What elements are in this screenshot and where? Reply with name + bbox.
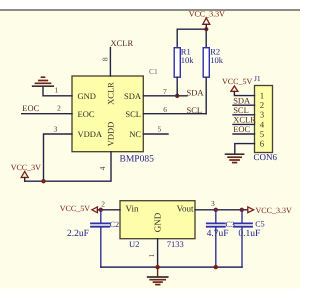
svg-text:BMP085: BMP085 <box>120 155 155 165</box>
svg-text:10k: 10k <box>210 55 224 65</box>
svg-text:3: 3 <box>54 125 58 134</box>
svg-text:10k: 10k <box>181 55 195 65</box>
svg-text:VCC_5V: VCC_5V <box>60 204 90 213</box>
svg-text:4: 4 <box>260 119 265 129</box>
svg-text:EOC: EOC <box>22 103 39 113</box>
wire pin5 NC stub <box>143 133 168 135</box>
junction R1/SDA <box>175 94 179 98</box>
svg-text:VCC_3.3V: VCC_3.3V <box>189 9 225 18</box>
svg-text:VCC_5V: VCC_5V <box>222 77 252 86</box>
capacitor C5 <box>234 210 265 267</box>
junction C2/Vin <box>99 208 103 212</box>
svg-text:VCC_3.3V: VCC_3.3V <box>256 206 292 215</box>
wire pin4 VDDD to VCC_3V <box>25 152 111 182</box>
svg-text:VCC_3V: VCC_3V <box>11 163 41 172</box>
wire J1 pin1 <box>234 91 254 95</box>
svg-text:J1: J1 <box>254 74 261 83</box>
wire Vin pin2 <box>97 209 120 211</box>
svg-text:2.2uF: 2.2uF <box>67 229 89 239</box>
svg-text:SDA: SDA <box>124 91 142 101</box>
svg-text:SCL: SCL <box>233 105 249 115</box>
svg-text:CON6: CON6 <box>254 152 278 162</box>
junction C5/Vout <box>240 208 244 212</box>
resistor R2 <box>203 29 224 114</box>
wire J1 pin6 to ground <box>235 144 255 154</box>
ground (earth) below U2 <box>148 267 168 285</box>
wire pin8 XCLR <box>109 48 111 77</box>
wire pin2 EOC <box>22 113 72 115</box>
wire pin3 VDDA <box>44 134 73 181</box>
wire J1 pin4 XCLR <box>233 123 255 125</box>
svg-text:SDA: SDA <box>187 88 205 98</box>
svg-text:8: 8 <box>100 57 109 61</box>
svg-text:C2: C2 <box>110 220 119 229</box>
svg-text:1: 1 <box>147 253 156 257</box>
wire J1 pin3 SCL <box>233 114 255 116</box>
svg-text:3: 3 <box>260 110 265 120</box>
svg-text:4: 4 <box>98 166 107 170</box>
svg-text:VDDA: VDDA <box>78 129 103 139</box>
capacitor C3 <box>207 210 235 267</box>
junction C3/Vout <box>214 208 218 212</box>
svg-text:0.1uF: 0.1uF <box>238 229 260 239</box>
junction rail/C3 <box>214 265 218 269</box>
svg-text:SDA: SDA <box>233 95 251 105</box>
svg-text:7: 7 <box>163 87 167 96</box>
power VCC_5V at J1 <box>222 74 261 91</box>
svg-text:VDDD: VDDD <box>106 122 116 147</box>
svg-text:SCL: SCL <box>187 105 203 115</box>
svg-text:6: 6 <box>163 105 167 114</box>
svg-text:XCLR: XCLR <box>233 115 256 125</box>
wire J1 pin2 SDA <box>233 104 255 106</box>
connector J1 body <box>254 86 278 163</box>
svg-text:EOC: EOC <box>78 109 95 119</box>
svg-text:6: 6 <box>260 139 265 149</box>
svg-text:XCLR: XCLR <box>111 38 134 48</box>
wire Vout pin3 <box>195 209 248 211</box>
svg-text:EOC: EOC <box>233 124 250 134</box>
wire ground rail <box>101 266 242 268</box>
power VCC_3.3V top <box>189 9 225 29</box>
wire U2 GND pin1 <box>157 239 159 267</box>
svg-text:1: 1 <box>55 85 59 94</box>
wire J1 pin5 EOC <box>233 133 255 135</box>
svg-text:3: 3 <box>211 199 215 208</box>
wire pin6 SCL <box>143 113 206 115</box>
wire pin1 GND <box>43 86 72 96</box>
regulator U2 body <box>120 201 195 249</box>
wire pin7 SDA <box>143 95 187 97</box>
svg-text:C3: C3 <box>226 220 235 229</box>
power VCC_5V at U2 <box>60 204 98 213</box>
ground (earth) at J1 <box>226 154 244 162</box>
svg-text:1: 1 <box>260 91 264 101</box>
svg-text:U2: U2 <box>129 239 139 249</box>
power VCC_3V <box>11 163 41 181</box>
svg-text:2: 2 <box>101 199 105 208</box>
svg-text:2: 2 <box>57 104 61 113</box>
ground (earth) at pin1, pointing up <box>33 77 54 86</box>
svg-text:NC: NC <box>129 129 141 139</box>
svg-text:4.7uF: 4.7uF <box>207 229 229 239</box>
svg-text:C5: C5 <box>255 220 264 229</box>
wire R1 top to R2 top <box>177 28 206 30</box>
junction rail/U2gnd <box>155 265 159 269</box>
power VCC_3.3V right <box>248 206 292 215</box>
svg-text:C1: C1 <box>149 67 158 76</box>
IC BMP085 (pressure sensor) <box>72 76 154 165</box>
capacitor C2 <box>67 210 119 267</box>
resistor R1 <box>174 29 194 96</box>
junction VCC/R2 <box>204 27 208 31</box>
svg-text:7133: 7133 <box>167 239 184 249</box>
svg-text:XCLR: XCLR <box>106 82 116 105</box>
svg-text:SCL: SCL <box>125 109 141 119</box>
svg-text:5: 5 <box>158 125 162 134</box>
junction at VDDA/VDDD <box>41 179 45 183</box>
svg-text:2: 2 <box>260 100 264 110</box>
svg-text:GND: GND <box>153 212 163 232</box>
svg-text:5: 5 <box>260 129 265 139</box>
svg-text:Vout: Vout <box>177 204 194 214</box>
svg-text:GND: GND <box>78 91 96 101</box>
svg-text:Vin: Vin <box>126 204 139 214</box>
